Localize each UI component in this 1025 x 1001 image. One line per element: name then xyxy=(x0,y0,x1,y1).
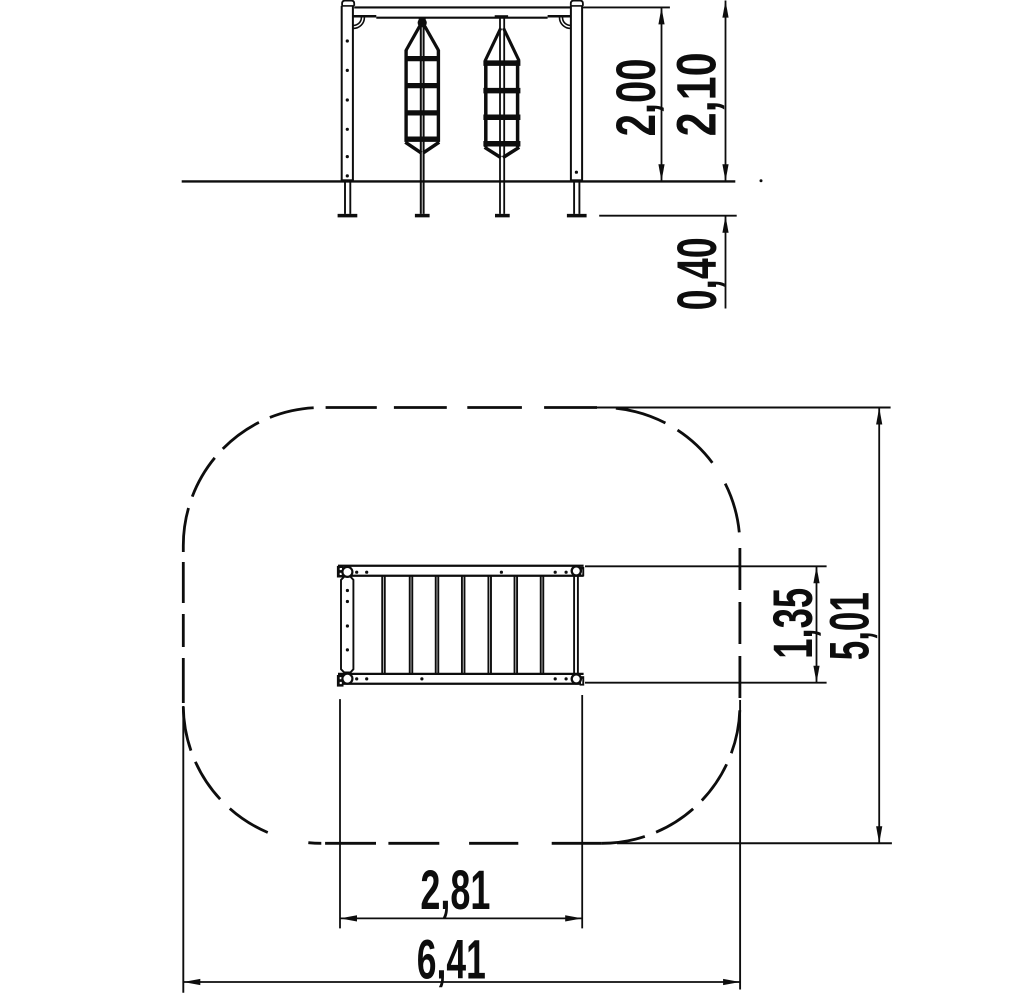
svg-text:5,01: 5,01 xyxy=(817,592,880,660)
svg-text:2,00: 2,00 xyxy=(604,58,667,136)
svg-text:2,81: 2,81 xyxy=(420,858,490,921)
svg-text:2,10: 2,10 xyxy=(664,52,727,136)
svg-text:0,40: 0,40 xyxy=(665,237,728,310)
svg-text:1,35: 1,35 xyxy=(761,588,824,659)
svg-text:6,41: 6,41 xyxy=(417,927,486,990)
